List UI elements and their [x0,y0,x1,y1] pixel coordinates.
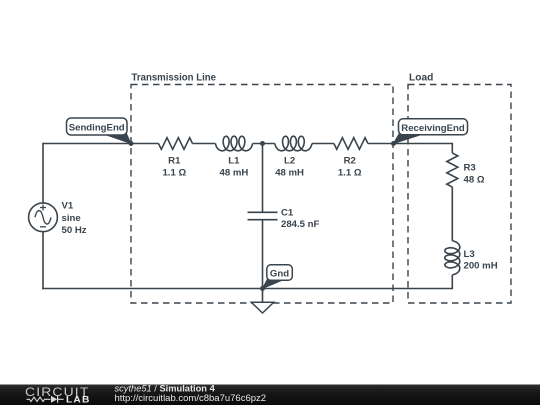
svg-text:284.5 nF: 284.5 nF [281,219,320,230]
svg-text:ReceivingEnd: ReceivingEnd [401,123,465,134]
ground symbol stem [262,289,264,303]
svg-text:Gnd: Gnd [270,269,289,280]
Transmission Line region box [131,85,393,304]
svg-text:Load: Load [409,73,433,84]
V1 minus sign [40,226,46,228]
svg-text:48 mH: 48 mH [275,168,304,179]
wire: R3 bottom to L3 top [451,187,453,241]
wire: R2 to ReceivingEnd node and to load branch corner [368,143,452,145]
node flag ReceivingEnd box [399,119,468,135]
wire: load branch: node to R3 top [451,143,453,153]
node flag Gnd box [267,265,293,281]
node junction dot: ground node [260,286,265,291]
svg-text:LAB: LAB [66,393,91,404]
wire: L3 bottom to bottom rail [451,275,453,290]
inductor L2 [275,136,312,151]
wire: C1 branch bottom [262,220,264,289]
voltage source V1 [29,203,58,232]
wire: R1 to L1 [193,143,216,145]
wire: L2 to R2 [312,143,334,145]
svg-text:L3: L3 [464,249,475,260]
wire: top rail from V1 to R1 [43,143,159,145]
wire: left rail down to V1 top [42,143,44,203]
svg-text:R3: R3 [464,163,476,174]
inductor L3 [445,241,460,275]
resistor R2 [334,138,368,150]
node flag SendingEnd box [67,118,128,135]
svg-text:1.1 Ω: 1.1 Ω [162,168,186,179]
svg-text:sine: sine [62,213,81,224]
resistor R1 [159,138,193,150]
svg-text:48 Ω: 48 Ω [464,174,485,185]
V1 plus sign [40,205,46,211]
svg-text:V1: V1 [62,200,74,211]
resistor R3 [447,153,458,187]
wire: V1 bottom to bottom rail [42,232,44,289]
node flag SendingEnd pointer [103,134,131,144]
wire: C1 branch top [262,144,264,213]
wire: bottom rail [42,288,452,290]
wire: L1 to L2 (node C1 top) [253,143,275,145]
svg-text:50 Hz: 50 Hz [62,225,87,236]
svg-text:L2: L2 [284,156,295,167]
node junction dot: C1 top node [260,141,265,146]
svg-text:Transmission Line: Transmission Line [132,73,217,84]
svg-text:200 mH: 200 mH [464,260,498,271]
svg-text:C1: C1 [281,208,294,219]
Load region box [408,85,511,304]
inductor L1 [215,136,252,151]
svg-text:48 mH: 48 mH [220,168,249,179]
svg-text:R1: R1 [168,156,181,167]
ground symbol triangle [251,302,273,313]
capacitor C1 [248,212,278,219]
svg-text:scythe51 / Simulation 4: scythe51 / Simulation 4 [115,384,216,394]
node junction dot: ReceivingEnd node [391,141,396,146]
svg-text:http://circuitlab.com/c8ba7u76: http://circuitlab.com/c8ba7u76c6pz2 [115,393,267,404]
svg-text:L1: L1 [228,156,240,167]
node flag ReceivingEnd pointer [394,134,424,144]
node flag Gnd pointer [263,279,286,289]
node junction dot: SendingEnd node [129,141,134,146]
svg-text:1.1 Ω: 1.1 Ω [338,168,362,179]
svg-text:SendingEnd: SendingEnd [69,122,125,133]
CircuitLab logo: diode symbol [51,396,57,403]
CircuitLab logo: resistor zigzag [27,397,51,401]
svg-text:R2: R2 [344,156,356,167]
